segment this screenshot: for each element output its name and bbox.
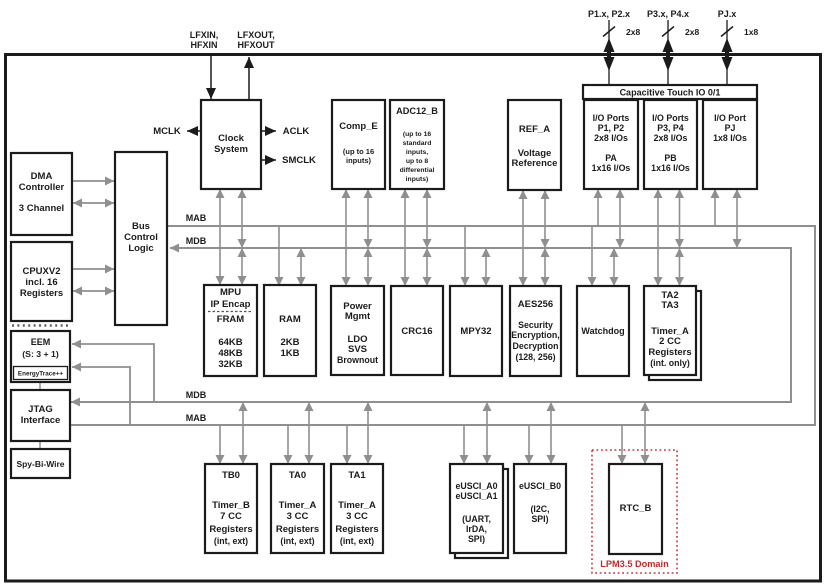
svg-text:(I2C,: (I2C, bbox=[530, 504, 549, 514]
svg-text:CPUXV2: CPUXV2 bbox=[22, 266, 60, 277]
svg-text:ADC12_B: ADC12_B bbox=[396, 106, 438, 116]
svg-text:FRAM: FRAM bbox=[217, 314, 245, 325]
svg-text:up to 8: up to 8 bbox=[406, 158, 428, 165]
svg-text:7 CC: 7 CC bbox=[220, 511, 242, 522]
svg-text:IrDA,: IrDA, bbox=[466, 524, 487, 534]
svg-text:LFXIN,: LFXIN, bbox=[190, 30, 219, 40]
svg-text:Controller: Controller bbox=[19, 182, 65, 193]
svg-text:TA1: TA1 bbox=[348, 470, 366, 481]
svg-text:LPM3.5 Domain: LPM3.5 Domain bbox=[600, 559, 669, 569]
svg-text:2x8 I/Os: 2x8 I/Os bbox=[654, 133, 688, 143]
svg-text:(UART,: (UART, bbox=[462, 514, 491, 524]
svg-text:EnergyTrace++: EnergyTrace++ bbox=[18, 371, 63, 378]
svg-text:Watchdog: Watchdog bbox=[581, 326, 624, 336]
svg-text:Registers: Registers bbox=[648, 347, 691, 358]
svg-text:MPY32: MPY32 bbox=[460, 326, 491, 337]
svg-text:System: System bbox=[214, 144, 248, 155]
svg-text:inputs): inputs) bbox=[406, 176, 429, 183]
svg-text:MDB: MDB bbox=[186, 390, 207, 400]
svg-text:(up to 16: (up to 16 bbox=[403, 131, 432, 138]
svg-text:(int. only): (int. only) bbox=[650, 358, 690, 368]
svg-text:2x8: 2x8 bbox=[626, 27, 640, 37]
svg-text:Security: Security bbox=[518, 320, 553, 330]
svg-text:(int, ext): (int, ext) bbox=[280, 536, 314, 546]
svg-text:1x16 I/Os: 1x16 I/Os bbox=[651, 163, 690, 173]
svg-text:Registers: Registers bbox=[209, 524, 252, 535]
svg-text:3 CC: 3 CC bbox=[346, 511, 368, 522]
svg-text:TA3: TA3 bbox=[661, 300, 678, 311]
svg-text:Control: Control bbox=[124, 232, 158, 243]
svg-text:48KB: 48KB bbox=[218, 348, 242, 359]
svg-text:PA: PA bbox=[605, 153, 617, 163]
svg-text:standard: standard bbox=[403, 140, 432, 147]
svg-text:3 CC: 3 CC bbox=[287, 511, 309, 522]
svg-text:Brownout: Brownout bbox=[337, 355, 378, 365]
svg-text:Clock: Clock bbox=[218, 133, 245, 144]
svg-text:AES256: AES256 bbox=[518, 299, 553, 310]
svg-text:Encryption,: Encryption, bbox=[511, 330, 559, 340]
svg-text:1x16 I/Os: 1x16 I/Os bbox=[592, 163, 631, 173]
svg-text:I/O Ports: I/O Ports bbox=[593, 113, 630, 123]
svg-text:eUSCI_A1: eUSCI_A1 bbox=[455, 491, 497, 501]
svg-text:Registers: Registers bbox=[335, 524, 378, 535]
svg-text:inputs): inputs) bbox=[346, 156, 371, 165]
svg-text:P3, P4: P3, P4 bbox=[657, 123, 684, 133]
svg-text:IP Encap: IP Encap bbox=[211, 299, 251, 310]
svg-text:TB0: TB0 bbox=[222, 470, 240, 481]
svg-text:64KB: 64KB bbox=[218, 337, 242, 348]
svg-text:HFXOUT: HFXOUT bbox=[238, 40, 276, 50]
svg-text:(int, ext): (int, ext) bbox=[340, 536, 374, 546]
svg-text:1KB: 1KB bbox=[280, 348, 299, 359]
svg-text:Registers: Registers bbox=[276, 524, 319, 535]
svg-text:MAB: MAB bbox=[186, 213, 207, 223]
svg-text:CRC16: CRC16 bbox=[401, 326, 432, 337]
svg-text:1x8 I/Os: 1x8 I/Os bbox=[713, 133, 747, 143]
svg-text:Decryption: Decryption bbox=[513, 341, 559, 351]
svg-text:ACLK: ACLK bbox=[283, 126, 310, 137]
svg-text:Reference: Reference bbox=[512, 158, 558, 169]
svg-text:3 Channel: 3 Channel bbox=[19, 203, 64, 214]
svg-text:inputs,: inputs, bbox=[406, 149, 428, 156]
svg-text:I/O Port: I/O Port bbox=[714, 113, 746, 123]
svg-text:Spy-Bi-Wire: Spy-Bi-Wire bbox=[16, 459, 64, 469]
svg-text:Interface: Interface bbox=[21, 415, 61, 426]
svg-text:PJ: PJ bbox=[725, 123, 736, 133]
svg-text:P3.x, P4.x: P3.x, P4.x bbox=[647, 9, 689, 19]
svg-text:HFXIN: HFXIN bbox=[191, 40, 218, 50]
svg-text:Comp_E: Comp_E bbox=[339, 121, 378, 132]
svg-text:Timer_B: Timer_B bbox=[212, 500, 250, 511]
svg-text:2 CC: 2 CC bbox=[659, 336, 681, 347]
svg-text:Bus: Bus bbox=[132, 221, 150, 232]
svg-text:2KB: 2KB bbox=[280, 337, 299, 348]
svg-text:SPI): SPI) bbox=[468, 534, 485, 544]
svg-text:PJ.x: PJ.x bbox=[718, 9, 737, 19]
svg-text:Logic: Logic bbox=[128, 243, 153, 254]
svg-text:MAB: MAB bbox=[186, 413, 207, 423]
svg-text:JTAG: JTAG bbox=[28, 404, 53, 415]
svg-text:REF_A: REF_A bbox=[519, 124, 550, 135]
svg-text:2x8 I/Os: 2x8 I/Os bbox=[594, 133, 628, 143]
svg-text:RAM: RAM bbox=[279, 314, 301, 325]
svg-text:(128, 256): (128, 256) bbox=[515, 352, 555, 362]
svg-text:LFXOUT,: LFXOUT, bbox=[237, 30, 275, 40]
svg-text:differential: differential bbox=[400, 167, 435, 174]
svg-text:2x8: 2x8 bbox=[685, 27, 699, 37]
svg-text:MDB: MDB bbox=[186, 236, 207, 246]
svg-text:EEM: EEM bbox=[31, 337, 51, 347]
svg-text:PB: PB bbox=[664, 153, 676, 163]
svg-text:MCLK: MCLK bbox=[153, 126, 181, 137]
svg-text:I/O Ports: I/O Ports bbox=[652, 113, 689, 123]
svg-text:P1.x, P2.x: P1.x, P2.x bbox=[588, 9, 630, 19]
svg-text:P1, P2: P1, P2 bbox=[598, 123, 625, 133]
svg-text:TA0: TA0 bbox=[289, 470, 306, 481]
svg-text:Timer_A: Timer_A bbox=[338, 500, 376, 511]
svg-text:incl. 16: incl. 16 bbox=[25, 277, 57, 288]
svg-text:(int, ext): (int, ext) bbox=[214, 536, 248, 546]
svg-text:eUSCI_A0: eUSCI_A0 bbox=[455, 481, 497, 491]
svg-text:(up to 16: (up to 16 bbox=[343, 147, 374, 156]
svg-text:eUSCI_B0: eUSCI_B0 bbox=[519, 481, 561, 491]
svg-text:Mgmt: Mgmt bbox=[345, 311, 371, 322]
svg-text:32KB: 32KB bbox=[218, 359, 242, 370]
svg-text:1x8: 1x8 bbox=[744, 27, 758, 37]
svg-text:DMA: DMA bbox=[31, 171, 53, 182]
svg-text:RTC_B: RTC_B bbox=[620, 503, 652, 514]
svg-text:SVS: SVS bbox=[348, 344, 367, 355]
svg-text:MPU: MPU bbox=[220, 287, 241, 298]
svg-text:Timer_A: Timer_A bbox=[279, 500, 317, 511]
svg-text:Registers: Registers bbox=[20, 288, 63, 299]
svg-text:SMCLK: SMCLK bbox=[282, 155, 316, 166]
svg-text:(S: 3 + 1): (S: 3 + 1) bbox=[22, 349, 59, 359]
svg-text:SPI): SPI) bbox=[531, 514, 548, 524]
svg-text:Capacitive Touch IO 0/1: Capacitive Touch IO 0/1 bbox=[620, 88, 721, 98]
